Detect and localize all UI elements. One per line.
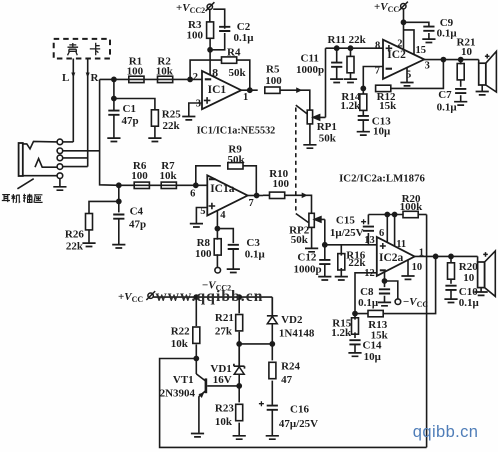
svg-text:R4: R4 — [227, 47, 241, 59]
capacitor C15 — [363, 227, 374, 231]
node pin6 rail — [385, 212, 389, 216]
svg-text:1N4148: 1N4148 — [279, 328, 315, 340]
svg-text:10k: 10k — [215, 416, 233, 428]
resistor R4 — [222, 57, 237, 63]
svg-text:100k: 100k — [400, 201, 424, 213]
resistor R15 — [352, 318, 359, 334]
transistor VT1 — [196, 374, 239, 433]
svg-text:10μ: 10μ — [373, 125, 391, 137]
svg-text:www.qqibb.cn: www.qqibb.cn — [156, 288, 264, 305]
capacitor C14 — [349, 340, 360, 344]
capacitor C12 — [319, 260, 330, 264]
svg-text:100: 100 — [131, 170, 148, 182]
svg-text:2: 2 — [397, 38, 402, 49]
node R8/C3 — [215, 227, 219, 231]
ground C13 — [357, 132, 370, 135]
resistor R13 — [368, 310, 383, 316]
power +Vcc terminal bottom — [146, 291, 155, 300]
headphone jack body — [19, 143, 23, 176]
jack contact spring — [35, 159, 58, 168]
node C4 branch — [117, 183, 121, 187]
power +Vcc terminal top — [399, 2, 408, 11]
svg-text:0.1μ: 0.1μ — [437, 28, 458, 40]
svg-text:0.1μ: 0.1μ — [437, 102, 458, 114]
capacitor C11 — [331, 63, 342, 67]
node R24 top — [270, 342, 274, 346]
wire speaker ground — [481, 85, 483, 91]
wire R4 feedback — [190, 60, 250, 90]
node IC1a pin6 — [194, 183, 198, 187]
RP1 gang diagonal — [296, 105, 308, 114]
ground C8 — [378, 302, 391, 305]
wire R5 to RP1 — [280, 90, 310, 110]
svg-text:50k: 50k — [319, 132, 337, 144]
node R3/C2 — [208, 48, 212, 52]
svg-text:6: 6 — [190, 189, 195, 200]
svg-text:15k: 15k — [379, 100, 397, 112]
power +Vcc2 terminal — [206, 2, 215, 11]
svg-text:8: 8 — [212, 66, 218, 80]
svg-text:47p: 47p — [122, 115, 139, 127]
svg-text:47p: 47p — [129, 219, 146, 231]
svg-text:+VCC: +VCC — [118, 291, 143, 304]
wire R26 branch — [89, 201, 119, 213]
wire mute rail — [368, 214, 403, 216]
wire circle5 to ground — [59, 178, 61, 186]
plus IC1a — [209, 203, 216, 210]
arrow R — [86, 73, 90, 79]
svg-text:7: 7 — [249, 198, 254, 209]
plus sign C16 — [259, 401, 264, 406]
speaker bottom cone — [485, 251, 496, 296]
ground C9 — [422, 39, 435, 42]
jack tip contact V — [23, 141, 58, 149]
wire R21b leads — [238, 297, 240, 344]
capacitor C1 — [108, 111, 119, 115]
svg-text:47μ/25V: 47μ/25V — [279, 418, 318, 430]
node C1/R25 — [112, 96, 116, 100]
capacitor C13 — [358, 116, 369, 120]
wire R3 to node — [209, 38, 211, 50]
capacitor C4 — [113, 215, 124, 219]
RP2 wiper arrow — [315, 217, 325, 222]
wire R25 branch — [114, 99, 155, 111]
wire IC2 output — [424, 59, 479, 61]
svg-text:6: 6 — [379, 228, 384, 239]
wire IC2a pin12 — [355, 273, 377, 314]
wire +Vcc line — [153, 296, 272, 298]
resistor R14 — [360, 94, 367, 110]
wire R16 leads — [340, 245, 342, 277]
ground IC1a pin5 — [190, 224, 203, 227]
svg-text:R25: R25 — [162, 109, 181, 121]
jack circle 4 — [57, 164, 63, 170]
node IC1 pin2 — [188, 77, 192, 81]
wire IC2a output — [415, 255, 478, 257]
node collector junction — [194, 356, 198, 360]
wire Vcc2 to R3 — [209, 10, 211, 23]
resistor R23 — [236, 404, 243, 420]
svg-text:IC2: IC2 — [387, 49, 406, 61]
minus IC1 — [205, 78, 211, 80]
wire R26 ground lead — [88, 230, 90, 243]
svg-text:3: 3 — [196, 99, 201, 110]
wire R11 leads — [350, 48, 352, 79]
minus IC2 — [386, 68, 392, 70]
svg-text:10: 10 — [412, 262, 423, 273]
ground speaker top — [476, 92, 489, 95]
node C8 — [382, 279, 386, 283]
arrow into RP2 — [302, 193, 308, 199]
svg-text:100: 100 — [265, 75, 282, 87]
wire to -Vcc terminal — [385, 281, 398, 299]
wire speaker bottom ground — [480, 288, 482, 292]
op-amp IC2 — [383, 40, 424, 79]
wire R14 leads — [362, 88, 364, 131]
plus speaker top — [485, 54, 490, 59]
wire mute vertical long — [426, 215, 428, 448]
ground R16 — [335, 277, 348, 280]
wire junction line — [239, 343, 272, 345]
wire RP1 to ground — [309, 124, 311, 145]
wire R22 leads — [195, 297, 197, 374]
svg-text:100: 100 — [187, 30, 204, 42]
svg-text:R: R — [91, 72, 100, 84]
svg-text:10: 10 — [461, 46, 473, 58]
svg-text:13: 13 — [364, 235, 375, 246]
svg-text:−VCC: −VCC — [403, 296, 428, 309]
resistor R10 — [270, 192, 285, 198]
svg-text:100: 100 — [273, 178, 290, 190]
terminal -Vcc2 — [215, 267, 221, 273]
svg-text:RP1: RP1 — [317, 121, 337, 133]
svg-text:1μ/25V: 1μ/25V — [330, 227, 364, 239]
node input R — [112, 77, 116, 81]
minus IC1a — [209, 178, 215, 180]
resistor R6 — [134, 182, 149, 188]
svg-text:0.1μ: 0.1μ — [245, 249, 266, 261]
ground IC2a pin10 — [401, 276, 414, 279]
node R11 — [348, 46, 352, 50]
wire R8 leads — [216, 229, 218, 268]
wire R25 to ground — [154, 126, 156, 138]
svg-text:3: 3 — [425, 61, 430, 72]
svg-text:1000p: 1000p — [294, 264, 322, 276]
svg-text:1.2k: 1.2k — [340, 100, 361, 112]
ground R23 — [233, 436, 246, 439]
node output feedback — [434, 254, 438, 258]
wire IC2a pin6 — [386, 215, 388, 243]
resistor R20 mute — [403, 211, 418, 217]
potentiometer RP1 body — [307, 110, 312, 124]
resistor R8 — [214, 239, 221, 255]
svg-text:C11: C11 — [301, 53, 319, 65]
ground speaker bottom — [475, 292, 488, 295]
node R21b top — [237, 295, 241, 299]
ground IC1 pin3 — [182, 117, 195, 120]
zener VD1 — [234, 344, 245, 386]
ground C16 — [266, 436, 279, 439]
wire circle3 right — [62, 157, 87, 159]
wire C12 leads — [324, 245, 326, 277]
svg-text:0.1μ: 0.1μ — [459, 297, 480, 309]
op-amp IC2a — [377, 237, 415, 276]
ground C12 — [318, 277, 331, 280]
ground C11 — [330, 79, 343, 82]
label pointer line — [17, 179, 33, 189]
wire IC2a C8 branch — [384, 272, 386, 302]
plus speaker bottom — [483, 252, 488, 257]
capacitor C3 — [228, 245, 239, 249]
resistor R22 — [193, 327, 200, 343]
svg-text:C4: C4 — [130, 206, 144, 218]
svg-text:VT1: VT1 — [173, 374, 194, 386]
wire RP2 wiper down — [324, 219, 326, 244]
svg-text:50k: 50k — [291, 234, 309, 246]
wire circle4 right — [62, 166, 87, 168]
node R13/R15 — [353, 312, 357, 316]
node IC1 out — [248, 88, 252, 92]
svg-text:10k: 10k — [156, 66, 174, 78]
svg-text:IC2/IC2a:LM1876: IC2/IC2a:LM1876 — [339, 173, 425, 185]
ground IC2 pin5 — [400, 83, 413, 86]
svg-text:22k: 22k — [163, 120, 181, 132]
svg-text:+VCC: +VCC — [374, 1, 399, 14]
speaker bottom box — [477, 256, 479, 262]
ground C1 — [107, 138, 120, 141]
wire R20 to mute vertical — [418, 214, 426, 216]
wire RP1 wiper up to rail — [325, 48, 327, 117]
ground R26 — [82, 243, 95, 246]
wire IC1 output — [241, 89, 258, 91]
capacitor C9 — [423, 27, 434, 31]
wire R10 to RP2 — [263, 195, 312, 213]
svg-text:IC2a: IC2a — [379, 252, 404, 264]
plus IC2 — [386, 45, 393, 52]
RP2 gang diagonal — [296, 214, 309, 223]
wire C2 branch — [210, 9, 225, 50]
svg-text:10: 10 — [463, 272, 475, 284]
svg-text:27k: 27k — [215, 326, 233, 338]
wire node to IC1 pin8 — [209, 50, 211, 76]
node VT1 base — [237, 384, 241, 388]
node VD1 top — [237, 342, 241, 346]
wire R from sound card — [87, 59, 89, 167]
svg-text:50k: 50k — [229, 67, 247, 79]
wire R24 leads — [271, 344, 273, 405]
wire R20b leads — [450, 256, 452, 283]
node R22 top — [194, 295, 198, 299]
svg-text:11: 11 — [396, 239, 406, 250]
svg-text:C12: C12 — [297, 252, 316, 264]
wire C1 branch — [113, 79, 115, 110]
node pin11 rail — [393, 212, 397, 216]
op-amp IC1 — [202, 71, 241, 109]
capacitor C7 — [455, 89, 466, 93]
svg-text:1: 1 — [243, 92, 248, 103]
svg-text:L: L — [62, 72, 69, 84]
ground C4 — [112, 245, 125, 248]
wire R13 to output vertical — [355, 256, 436, 313]
wire pin15 loop — [404, 30, 415, 55]
node zobel R21 — [459, 58, 463, 62]
svg-text:100: 100 — [127, 66, 144, 78]
svg-text:IC1a: IC1a — [210, 183, 235, 195]
wire IC2 pin7 — [363, 67, 383, 89]
wire R9 feedback — [196, 166, 256, 196]
wire IC1a pin5 ground — [196, 208, 207, 224]
resistor R26 — [86, 214, 93, 230]
resistor R12 — [376, 85, 391, 91]
wire upper input line — [100, 78, 202, 80]
wire C9 branch — [404, 22, 429, 39]
svg-text:R5: R5 — [266, 64, 280, 76]
wire C15 leads — [367, 215, 369, 245]
wire C16 ground lead — [271, 410, 273, 436]
svg-text:R21: R21 — [215, 312, 234, 324]
arrow into RP1 — [296, 87, 302, 93]
resistor R21 — [457, 63, 464, 79]
plus IC1 — [204, 97, 211, 104]
speaker top box — [478, 60, 480, 64]
svg-text:10k: 10k — [160, 170, 178, 182]
svg-text:C7: C7 — [438, 89, 452, 101]
wire circle2 right — [62, 150, 99, 152]
wire IC2a pin11 — [394, 215, 396, 247]
svg-text:50k: 50k — [228, 154, 246, 166]
ground C10 — [444, 299, 457, 302]
arrow L — [71, 73, 75, 79]
node C12 — [323, 243, 327, 247]
wire C3 branch — [217, 229, 233, 269]
node R14/R12 — [361, 86, 365, 90]
svg-text:15: 15 — [416, 45, 427, 56]
svg-text:R23: R23 — [215, 403, 234, 415]
wire IC1a output — [248, 195, 263, 197]
plus IC2a — [380, 243, 386, 249]
resistor R20 zobel — [448, 263, 455, 279]
wire R12 to output — [391, 60, 444, 89]
svg-text:R22: R22 — [171, 326, 190, 338]
resistor R9 — [228, 163, 243, 169]
svg-text:0.1μ: 0.1μ — [234, 32, 255, 44]
wire rail to IC2 pin8 — [326, 47, 384, 49]
svg-text:1000p: 1000p — [296, 64, 324, 76]
wire lower input line — [119, 184, 208, 186]
svg-text:IC1/IC1a:NE5532: IC1/IC1a:NE5532 — [197, 126, 276, 137]
svg-text:C16: C16 — [290, 404, 309, 416]
resistor R2 — [158, 76, 173, 82]
svg-text:47: 47 — [281, 374, 293, 386]
wire IC2a pin10 ground — [407, 260, 409, 276]
svg-text:qqibb.cn: qqibb.cn — [413, 423, 479, 441]
diode VD2 — [267, 297, 278, 344]
capacitor C16 — [267, 406, 278, 410]
wire C11 leads — [336, 48, 338, 79]
wire Vcc down to IC2 pin2 — [403, 9, 405, 50]
potentiometer RP2 body — [309, 213, 314, 227]
wire IC2 pin5 ground — [406, 67, 408, 82]
wire L from sound card — [72, 59, 74, 143]
wire pin13 line — [325, 244, 377, 246]
svg-text:12: 12 — [364, 268, 375, 279]
capacitor C10 — [445, 286, 456, 290]
ground C3 — [227, 269, 240, 272]
svg-text:C15: C15 — [336, 215, 355, 227]
svg-text:R24: R24 — [281, 361, 300, 373]
jack circle 3 — [57, 155, 63, 161]
resistor R25 — [151, 110, 158, 126]
resistor R21 bottom — [236, 315, 243, 331]
node zobel R20b — [449, 254, 453, 258]
wire C4 ground lead — [118, 219, 120, 245]
svg-text:2: 2 — [193, 72, 198, 83]
ground RP1 — [303, 145, 316, 148]
svg-text:2N3904: 2N3904 — [160, 388, 196, 400]
plus sign C15 — [361, 219, 366, 224]
gang dashed link RP1-RP2 — [295, 108, 297, 214]
ground VT1 emitter — [191, 434, 204, 437]
svg-text:R11 22k: R11 22k — [328, 34, 367, 46]
resistor R24 — [269, 362, 276, 378]
terminal -Vcc — [395, 299, 401, 305]
wire IC1a pin4 — [216, 211, 218, 229]
jack sleeve wire — [23, 175, 58, 177]
svg-text:C1: C1 — [123, 103, 136, 115]
resistor R3 — [207, 22, 214, 38]
resistor R7 — [161, 182, 176, 188]
svg-text:IC1: IC1 — [208, 84, 227, 96]
wire R21 leads — [460, 60, 462, 102]
minus IC2a — [380, 269, 386, 271]
svg-text:4: 4 — [220, 210, 226, 221]
svg-text:C14: C14 — [363, 340, 382, 352]
svg-text:100: 100 — [195, 248, 212, 260]
svg-text:+VCC2: +VCC2 — [176, 2, 205, 15]
node feedback — [441, 58, 445, 62]
label 声卡 glyphs — [68, 43, 101, 56]
op-amp IC1a — [207, 175, 247, 215]
svg-text:0.1μ: 0.1μ — [358, 297, 379, 309]
node C4/R26 — [117, 199, 121, 203]
wire IC1 pin3 to ground — [189, 103, 202, 116]
svg-text:8: 8 — [375, 41, 380, 52]
wire RP2 to ground — [311, 227, 313, 248]
node Vcc/C9 — [401, 20, 405, 24]
jack circle 2 — [57, 148, 63, 154]
ground C14 — [348, 353, 361, 356]
resistor R11 — [347, 56, 354, 72]
wire R15 leads — [354, 314, 356, 338]
wire C4 vertical — [118, 185, 120, 212]
svg-text:22k: 22k — [66, 241, 84, 253]
svg-text:R26: R26 — [65, 228, 84, 240]
sound card box 声卡 — [54, 39, 110, 59]
wire mute loop left — [160, 359, 427, 448]
RP1 wiper arrow — [313, 115, 325, 120]
ground C7 — [454, 102, 467, 105]
svg-text:10μ: 10μ — [364, 351, 382, 363]
node C11 — [335, 46, 339, 50]
ground R11 — [344, 79, 357, 82]
wire C10 ground lead — [450, 290, 452, 299]
svg-text:C3: C3 — [246, 237, 260, 249]
node IC1a out — [255, 193, 259, 197]
svg-text:1: 1 — [419, 247, 424, 258]
wire R23 leads — [238, 386, 240, 436]
svg-text:1.2k: 1.2k — [331, 327, 352, 339]
ground RP2 — [305, 248, 318, 251]
